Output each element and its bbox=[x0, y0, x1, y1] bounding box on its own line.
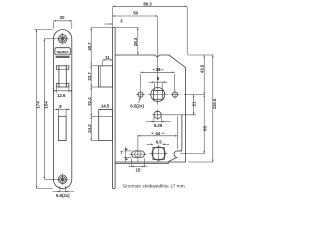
svg-text:6.5(2x): 6.5(2x) bbox=[130, 104, 144, 109]
dim 6.5 spindle bbox=[147, 139, 170, 145]
follower centerline extension right bbox=[184, 94, 205, 96]
svg-text:28.3: 28.3 bbox=[133, 37, 138, 46]
WC spindle hole bbox=[149, 145, 167, 162]
svg-text:40.7: 40.7 bbox=[87, 42, 92, 51]
lower plate opening bbox=[58, 116, 66, 140]
dim 28.3 bbox=[115, 28, 138, 55]
svg-text:11: 11 bbox=[105, 55, 110, 60]
dim 12.6 bbox=[53, 88, 72, 98]
dim 5.5(2x) bbox=[53, 186, 75, 198]
svg-text:174: 174 bbox=[35, 101, 40, 109]
dim 154 bbox=[43, 39, 56, 180]
label 6.5(2x) with leader bbox=[130, 98, 144, 109]
svg-text:80.3: 80.3 bbox=[143, 1, 152, 6]
svg-text:63: 63 bbox=[203, 126, 208, 131]
dim 50 bbox=[113, 11, 158, 17]
svg-text:21: 21 bbox=[192, 101, 197, 106]
svg-text:5.5(2x): 5.5(2x) bbox=[56, 193, 70, 198]
dim 44 bottom slots bbox=[138, 116, 178, 149]
dim 21 bbox=[192, 95, 197, 115]
dim 116.5 bbox=[188, 55, 217, 162]
svg-text:9.25: 9.25 bbox=[154, 123, 163, 128]
svg-text:Grootste slotkastdikte 17 mm: Grootste slotkastdikte 17 mm bbox=[123, 184, 185, 189]
svg-text:23.7: 23.7 bbox=[87, 72, 92, 81]
left case screw hole bbox=[136, 90, 145, 99]
dim 43.5 bbox=[188, 55, 214, 95]
dim 80.3 bbox=[113, 1, 188, 54]
svg-text:154: 154 bbox=[43, 101, 48, 109]
logo box NEMEF bbox=[55, 48, 70, 58]
bottom screw hole bbox=[57, 173, 69, 185]
lock case side box (strike pocket) bbox=[99, 110, 113, 141]
top screw hole bbox=[57, 33, 69, 45]
dim 63 bbox=[180, 95, 207, 154]
svg-text:43.5: 43.5 bbox=[199, 64, 204, 73]
dim 11 bbox=[103, 55, 113, 65]
dim 20 bbox=[53, 15, 71, 29]
svg-text:44: 44 bbox=[155, 131, 160, 136]
dim 174 bbox=[34, 30, 53, 189]
dim 15 bbox=[129, 159, 148, 173]
latch bolt front view bbox=[56, 66, 69, 87]
dim 9.25 bbox=[146, 117, 171, 128]
dim 8 follower bbox=[149, 76, 168, 91]
lock case outline bbox=[115, 55, 186, 164]
follower (handle spindle hole) bbox=[148, 17, 169, 105]
svg-text:32.4: 32.4 bbox=[87, 97, 92, 106]
svg-text:116.5: 116.5 bbox=[212, 98, 217, 109]
dim 3 faceplate thickness bbox=[104, 18, 123, 25]
svg-text:24.2: 24.2 bbox=[87, 124, 92, 133]
faceplate front view outline bbox=[53, 30, 71, 189]
svg-text:NEMEF: NEMEF bbox=[57, 51, 69, 55]
dim 8 front bbox=[55, 104, 70, 116]
right case screw hole bbox=[171, 90, 180, 99]
svg-text:50: 50 bbox=[133, 11, 138, 16]
side view faceplate edge bbox=[113, 28, 116, 189]
dim 38 bbox=[141, 67, 175, 91]
obround mounting slot bbox=[129, 147, 147, 162]
right edge slot bbox=[168, 115, 182, 162]
latch bolt side view bbox=[99, 66, 113, 87]
middle dimension chain 40.7 / 23.7 / 32.4 / 24.2 bbox=[87, 28, 112, 141]
svg-text:14.5: 14.5 bbox=[101, 103, 110, 108]
svg-text:38: 38 bbox=[156, 67, 161, 72]
svg-text:20: 20 bbox=[60, 15, 65, 20]
svg-text:15: 15 bbox=[135, 167, 140, 172]
dim 7 bbox=[120, 147, 131, 162]
svg-text:12.6: 12.6 bbox=[57, 93, 66, 98]
svg-text:6.5: 6.5 bbox=[156, 139, 163, 144]
small hole below follower bbox=[152, 109, 196, 120]
dim 14.5 bbox=[99, 103, 113, 110]
